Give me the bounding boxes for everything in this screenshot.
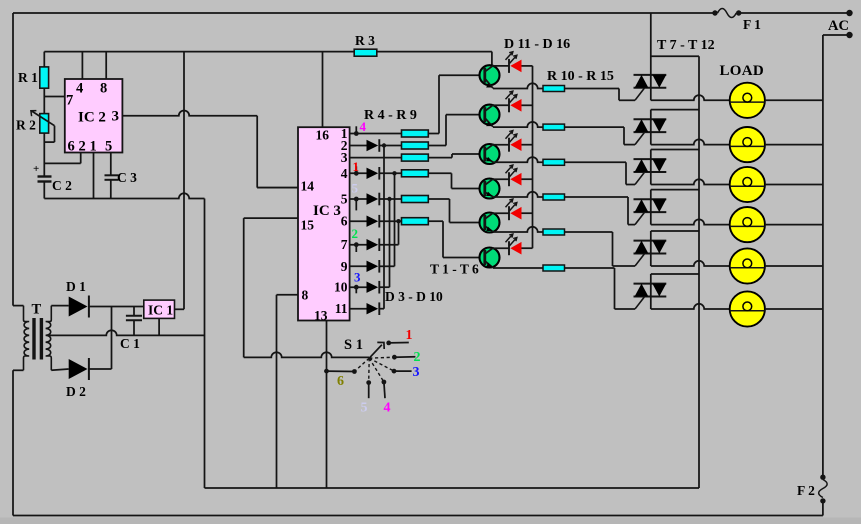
wire lamp 6 to AC bus: [765, 308, 823, 310]
triac T7: [634, 75, 667, 100]
svg-text:C 3: C 3: [117, 170, 137, 185]
svg-text:3: 3: [112, 109, 120, 125]
IC3 box: [298, 126, 350, 323]
svg-text:3: 3: [341, 150, 348, 165]
lamp LOAD 2: [730, 127, 765, 162]
resistor R7: [402, 170, 429, 177]
transistor T3: [480, 144, 500, 164]
svg-text:LOAD: LOAD: [720, 63, 765, 79]
svg-text:7: 7: [66, 93, 73, 109]
svg-text:5: 5: [341, 192, 348, 207]
wire R7 to T4 base: [428, 172, 451, 174]
svg-text:D 2: D 2: [66, 384, 86, 399]
diode D7 (pin 7): [350, 238, 380, 251]
wire top AC line: [13, 12, 715, 14]
wire IC2 pin8: [105, 52, 107, 79]
wire Vcc rail: [44, 51, 492, 53]
resistor R11: [543, 124, 565, 130]
node pin4 sequence marker 1: [353, 159, 360, 176]
diode D5 (pin 5): [350, 193, 380, 206]
wire triac T8 MT2 branch: [650, 110, 652, 120]
wire triac T10 MT2 branch: [650, 190, 652, 200]
wire IC2 pin3 output: [122, 110, 257, 115]
svg-text:9: 9: [341, 259, 348, 274]
wire IC2 pin4: [81, 52, 83, 79]
wire triac T9 MT1 to lamp: [650, 172, 652, 185]
svg-text:2: 2: [79, 139, 86, 155]
resistor R9: [402, 218, 429, 225]
node S1 position 4: [382, 380, 391, 416]
wire ground line under IC2: [44, 193, 204, 198]
wire R4 to T1 base: [428, 133, 439, 135]
wire IC3 pin13 down: [326, 321, 328, 489]
transistor T6: [480, 248, 500, 268]
capacitor C3: [105, 152, 138, 198]
wire IC2 pin2 to C2: [80, 152, 82, 163]
resistor R1: [18, 52, 49, 114]
wire IC3 pin1 to R4: [350, 133, 402, 135]
wire pin10 diode to bus: [379, 286, 389, 288]
wire lamp 4 to AC bus: [765, 224, 823, 226]
svg-text:R 10 - R 15: R 10 - R 15: [547, 69, 614, 84]
wire matrix bus pin5-pin10: [389, 199, 391, 287]
svg-text:D 3 - D 10: D 3 - D 10: [385, 289, 443, 304]
wire R5 to T2 base: [428, 145, 446, 147]
transformer T: [13, 302, 51, 371]
wire matrix bus pin2-pin11: [383, 146, 385, 309]
wire lamp 5 to AC bus: [765, 265, 823, 267]
resistor R5: [402, 142, 429, 149]
svg-text:+: +: [33, 163, 39, 175]
LED D16: [492, 234, 533, 255]
capacitor C1: [120, 307, 142, 352]
wire ground drop to bottom: [204, 199, 206, 489]
wire T6 emitter to triac gate: [493, 267, 543, 269]
svg-text:8: 8: [100, 81, 107, 97]
svg-text:C 2: C 2: [52, 178, 72, 193]
svg-text:C 1: C 1: [120, 336, 140, 351]
wire IC3 pin8 ground: [277, 294, 299, 296]
lamp LOAD 6: [730, 291, 765, 326]
svg-text:D 11 - D 16: D 11 - D 16: [504, 37, 570, 52]
wire R6 to T3 base: [428, 157, 452, 159]
svg-text:T 1 - T 6: T 1 - T 6: [430, 262, 479, 277]
svg-text:IC 1: IC 1: [148, 303, 173, 318]
svg-text:16: 16: [316, 128, 330, 143]
wire pin7 diode to bus: [379, 244, 398, 246]
svg-text:3: 3: [413, 365, 420, 380]
wire matrix bus pin4-pin9: [394, 173, 396, 266]
wire inner bottom return: [205, 487, 700, 489]
node S1 position 3: [392, 365, 420, 380]
svg-text:5: 5: [352, 181, 359, 196]
regulator IC1: [144, 300, 175, 318]
wire lamp 2 to AC bus: [765, 144, 823, 146]
svg-text:F 1: F 1: [743, 17, 761, 32]
wire triac T7 MT1 to lamp: [650, 88, 652, 101]
resistor R3: [354, 33, 377, 56]
resistor R8: [402, 196, 429, 203]
diode D3 (pin 2): [350, 139, 380, 152]
svg-text:14: 14: [301, 179, 315, 194]
wire left border and bottom border: [12, 13, 14, 306]
triac T8: [634, 119, 667, 144]
diode D8 (pin 9): [350, 260, 380, 273]
wire triac MT2 bus: [698, 56, 700, 488]
wire LED anode bus: [532, 66, 534, 248]
svg-text:6: 6: [68, 139, 75, 155]
svg-text:F 2: F 2: [797, 483, 815, 498]
diode D4 (pin 4): [350, 167, 380, 180]
svg-text:1: 1: [406, 328, 413, 343]
wire IC1 ground pin: [158, 318, 160, 335]
wire pin4 diode to bus and R7: [379, 172, 401, 174]
svg-text:S 1: S 1: [344, 337, 363, 353]
wire pin2 diode to bus and R5: [379, 145, 401, 147]
lamp LOAD 5: [730, 248, 765, 283]
wire secondary bottom to D2: [51, 369, 68, 370]
wire triac T9 MT2 branch: [650, 150, 652, 160]
wire IC3 pin15 to S1: [244, 217, 298, 219]
diode D2: [66, 358, 89, 399]
wire matrix bus pin6-pin7: [398, 221, 400, 245]
node S1 position 1: [386, 328, 412, 345]
LED D13: [492, 131, 533, 152]
terminal AC: [828, 10, 853, 38]
svg-text:2: 2: [352, 226, 359, 241]
resistor R13: [543, 194, 565, 200]
node S1 position 6: [324, 369, 357, 389]
wire D1 cathode to IC1 input: [89, 306, 112, 308]
resistor R12: [543, 159, 565, 165]
svg-text:R 2: R 2: [16, 118, 36, 133]
transistor T2: [480, 105, 500, 127]
diode D6 (pin 6): [350, 215, 380, 228]
svg-text:3: 3: [354, 270, 361, 285]
LED D15: [492, 199, 533, 220]
resistor R6: [402, 154, 429, 161]
wire AC neutral to right bus: [823, 34, 850, 36]
wire T4 emitter to triac gate: [493, 192, 543, 197]
potentiometer R2: [16, 111, 55, 176]
svg-text:7: 7: [341, 237, 348, 252]
wire pin11 diode to bus: [379, 308, 384, 310]
transistor T1: [480, 65, 500, 88]
svg-text:2: 2: [414, 350, 421, 365]
svg-text:1: 1: [353, 159, 360, 174]
wire triac T7 MT2 riser to AC line: [650, 13, 652, 75]
triac T10: [634, 199, 667, 224]
wire secondary centre tap: [49, 330, 205, 335]
node pin10 sequence marker 3: [354, 270, 361, 294]
node pin1 sequence marker 4: [354, 119, 367, 136]
LED D12: [492, 91, 533, 112]
svg-text:R 3: R 3: [355, 33, 375, 48]
node pin7 sequence marker 2: [352, 226, 359, 252]
wire IC2 pin7: [44, 96, 65, 98]
wire triac T10 MT1 to lamp: [650, 212, 652, 225]
triac T9: [634, 159, 667, 184]
diode D1: [66, 279, 89, 318]
wire T5 emitter to triac gate: [493, 227, 543, 232]
resistor R4: [402, 130, 429, 137]
wire triac T7 MT2 branch: [651, 55, 699, 57]
IC2 box: [65, 79, 123, 155]
LED D11: [492, 52, 533, 73]
triac T11: [634, 241, 667, 266]
svg-text:5: 5: [105, 139, 112, 155]
svg-text:6: 6: [341, 214, 348, 229]
svg-text:T 7 - T 12: T 7 - T 12: [657, 38, 715, 53]
fuse F2: [797, 475, 827, 504]
node S1 position 5: [361, 380, 372, 415]
wire T2 emitter to triac gate: [493, 122, 543, 127]
wire T3 emitter to triac gate: [493, 157, 543, 162]
wire S1 common feed: [244, 352, 370, 357]
node S1 position 2: [392, 350, 421, 365]
wire pin9 diode to bus: [379, 265, 394, 267]
wire IC3 pin3 to R6: [350, 157, 402, 159]
svg-text:IC 3: IC 3: [313, 203, 341, 219]
LED D14: [492, 165, 533, 186]
svg-text:R 1: R 1: [18, 70, 38, 85]
svg-text:4: 4: [384, 401, 391, 416]
diode D10 (pin 11): [350, 302, 380, 315]
svg-text:IC 2: IC 2: [78, 110, 106, 126]
wire R8 to T5 base: [428, 198, 449, 200]
wire triac T11 MT1 to lamp: [650, 254, 652, 267]
lamp LOAD 4: [730, 207, 765, 242]
svg-text:1: 1: [90, 139, 97, 155]
svg-text:T: T: [32, 302, 42, 318]
lamp LOAD 1: [730, 83, 765, 118]
wire triac T8 MT1 to lamp: [650, 132, 652, 145]
transistor T4: [480, 179, 500, 199]
capacitor C2: [33, 163, 72, 199]
svg-text:5: 5: [361, 401, 368, 416]
svg-text:15: 15: [301, 218, 315, 233]
wire triac T12 MT2 branch: [650, 274, 652, 284]
node pin5 sequence marker 5: [352, 181, 359, 211]
svg-text:4: 4: [76, 81, 83, 97]
wire T1 emitter to triac gate: [493, 83, 543, 88]
svg-text:10: 10: [334, 280, 348, 295]
lamp LOAD 3: [730, 167, 765, 202]
svg-text:R 4 - R 9: R 4 - R 9: [364, 108, 417, 123]
fuse F1: [712, 9, 761, 33]
switch S1: [344, 337, 394, 383]
svg-text:8: 8: [302, 288, 309, 303]
wire pin6 diode to bus and R9: [379, 220, 401, 222]
transistor T5: [480, 213, 500, 233]
wire R9 to T6 base: [428, 220, 443, 222]
svg-text:AC: AC: [828, 18, 849, 34]
wire IC3 pin16 Vcc: [322, 52, 324, 128]
svg-text:D 1: D 1: [66, 279, 86, 294]
resistor R15: [543, 265, 565, 271]
wire secondary top to D1: [51, 305, 68, 307]
svg-text:4: 4: [341, 166, 348, 181]
svg-text:11: 11: [335, 301, 348, 316]
wire IC1 output riser to Vcc rail: [175, 308, 185, 310]
wire lamp 3 to AC bus: [765, 184, 823, 186]
wire IC3 pin14: [257, 187, 298, 189]
svg-text:6: 6: [337, 374, 344, 389]
wire pin5 diode to bus and R8: [379, 198, 401, 200]
wire triac T11 MT2 branch: [650, 231, 652, 241]
wire lamp 1 to AC bus: [765, 99, 823, 101]
resistor R14: [543, 229, 565, 235]
wire triac T12 MT1 to lamp: [650, 297, 652, 310]
triac T12: [634, 284, 667, 309]
diode D9 (pin 10): [350, 281, 380, 294]
resistor R10: [543, 86, 565, 92]
wire IC2 pin1 ground: [93, 152, 95, 198]
wire rail drop to T1 collector: [491, 52, 493, 66]
